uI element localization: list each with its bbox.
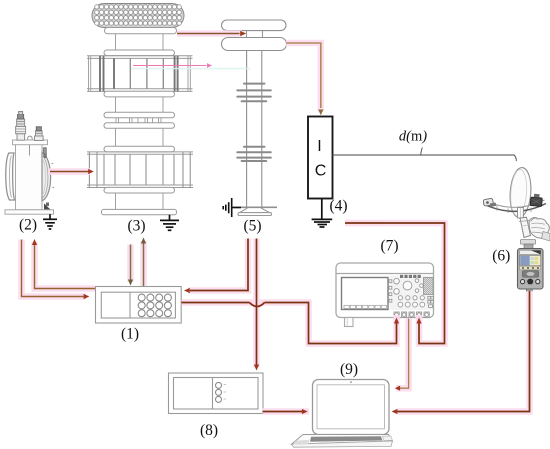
keyboard shading [294, 440, 310, 445]
ground of (4) [312, 199, 333, 228]
svg-text:(9): (9) [340, 361, 358, 378]
lower cage columns [89, 152, 190, 188]
wire: (5) tap to (1) with arrow [184, 239, 248, 294]
wire: (4) area to scope channel 4 [345, 223, 445, 344]
flange top of lower cage [104, 146, 175, 152]
right edge buttons [428, 297, 431, 300]
right bushing [35, 127, 44, 141]
left bushing [16, 112, 26, 141]
svg-text:(6): (6) [492, 248, 510, 265]
svg-text:(1): (1) [121, 326, 139, 343]
ground of (3) [160, 215, 179, 231]
svg-text:C: C [315, 163, 327, 180]
speaker grille [424, 278, 434, 295]
pistol grip handle [520, 217, 531, 237]
neck [116, 193, 164, 209]
laptop screen [313, 380, 390, 435]
center filler cap [28, 136, 32, 140]
wire: distance reference line [332, 155, 516, 161]
wire: (1) to (3) with up arrow [141, 238, 146, 287]
base bottom plate [238, 213, 272, 216]
knobs [521, 280, 525, 284]
svg-text:(2): (2) [19, 217, 37, 234]
neck [116, 97, 164, 112]
UHF detector device of (6) [518, 249, 544, 292]
neck wire [116, 34, 164, 50]
mid panel [522, 271, 538, 278]
upper cage rails [87, 56, 193, 92]
vertical control knobs row 1 [398, 296, 402, 300]
top strip with wedge [520, 250, 541, 254]
svg-text:(8): (8) [200, 422, 218, 439]
antenna boom [484, 204, 547, 212]
laptop base [292, 435, 393, 445]
toroid neck [247, 31, 263, 38]
faded arrow (3) to divider [133, 63, 212, 68]
faint cyan artifact band [131, 68, 250, 70]
left radiator [6, 153, 15, 200]
spacer insulator ticks [116, 118, 161, 123]
wire: (2) output to (3) with arrow [50, 169, 94, 174]
lid hinge mark [43, 148, 46, 154]
grading fins group 1 [237, 84, 270, 102]
base plate of (3) [102, 209, 177, 214]
divider lower toroid [222, 38, 287, 51]
lid [13, 140, 48, 145]
right radiator [42, 153, 51, 202]
wire: (3) sense to (1) with down arrow [128, 245, 133, 286]
toroid ball grid [95, 5, 182, 26]
right feed box [530, 197, 542, 206]
indicator circles of (8) [216, 382, 227, 402]
toroid base plate [105, 28, 177, 34]
hand holding grip [529, 218, 549, 239]
scope screen [342, 278, 389, 310]
neck [116, 128, 164, 146]
center strut [518, 208, 524, 219]
thin flange B [104, 123, 175, 129]
left clamp [483, 198, 493, 206]
base plate of (2) [5, 210, 54, 214]
lower cage rails [87, 152, 193, 188]
upper cage columns [89, 56, 191, 92]
wire: (6) detector to (9) with arrow [392, 291, 530, 414]
svg-text:(4): (4) [329, 198, 347, 215]
wire: (2) control loop outer with arrow into (1) [22, 240, 90, 300]
wire: (5) toroid to (4) with arrow [286, 43, 323, 115]
flange below lower cage [104, 187, 175, 193]
base legs [240, 208, 270, 213]
grading fins group 2 [237, 147, 270, 161]
oil gauge [44, 152, 47, 157]
tick at d(m) [421, 148, 423, 155]
BNC input connectors [394, 312, 429, 317]
svg-text:(7): (7) [380, 238, 398, 255]
svg-text:I: I [317, 138, 321, 155]
connector under grip [521, 240, 536, 245]
soft menu buttons column [389, 280, 392, 283]
flange below upper cage [104, 91, 175, 97]
button strip [520, 266, 541, 270]
dish reflector [508, 167, 532, 218]
drain valve foot [45, 205, 51, 210]
flange top of upper cage [104, 50, 175, 56]
wire: (5) tap to (8) with arrow [254, 239, 259, 371]
keypad circles of (1) [138, 294, 171, 317]
vertical control knobs row 2 [398, 302, 403, 307]
wrist cuff [542, 232, 550, 242]
toroid electrode of (3) [92, 4, 184, 28]
wire: (8) to (9) with arrow [263, 409, 308, 414]
bottom tab [526, 289, 532, 292]
wire: (1) to scope channel 1 with crossover hop [182, 303, 400, 344]
touchpad bar [310, 436, 383, 442]
svg-text:(5): (5) [243, 218, 261, 235]
wire: (1) to (2) with up arrow [32, 239, 95, 289]
thin flange A [104, 112, 175, 118]
small knobs [394, 278, 400, 284]
svg-text:(3): (3) [127, 218, 145, 235]
tank [16, 145, 43, 210]
top button strip [400, 275, 421, 278]
device screen [520, 255, 541, 265]
ground of (2) [43, 214, 57, 229]
divider column [247, 51, 262, 207]
wire: scope channel 2 to (9) with arrow [395, 319, 409, 391]
scope control panel [390, 276, 433, 311]
tank seam [29, 145, 31, 156]
wire: (3) toroid to (5) with arrow [177, 31, 246, 36]
ground of (5), side facing [223, 198, 241, 217]
big multipurpose knob [403, 281, 412, 290]
divider top toroid [222, 20, 287, 31]
scope foot [345, 318, 354, 327]
divider base platform [234, 206, 278, 208]
svg-text:d(m): d(m) [399, 129, 427, 145]
